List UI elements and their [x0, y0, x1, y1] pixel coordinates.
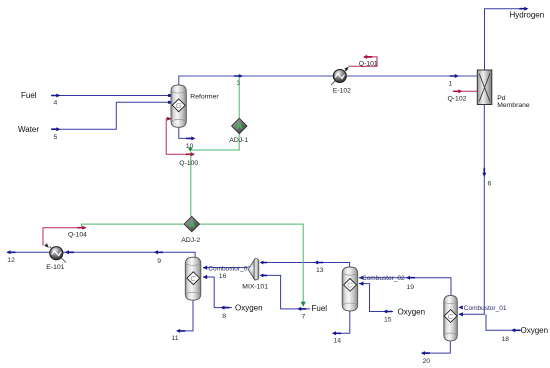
wire green ADJ-1 to stream 10 point: [188, 134, 239, 152]
wire Hydrogen product stream: [485, 7, 529, 70]
wire stream 11 Combustor_03 bottom outlet: [176, 300, 193, 333]
wire stream 5 Water feed: [51, 101, 171, 131]
heat exchanger E-102: [331, 67, 349, 85]
reactor vessel Combustor_03: [185, 257, 201, 300]
svg-text:15: 15: [384, 317, 392, 324]
wire green ADJ-2 to Fuel stream 7: [199, 224, 306, 307]
mixer MIX-101: [248, 259, 259, 281]
svg-text:Oxygen: Oxygen: [398, 307, 426, 316]
wire stream 13 Combustor_02 top to MIX-101: [260, 261, 350, 268]
svg-text:C: C: [448, 312, 454, 321]
svg-text:4: 4: [54, 100, 58, 107]
svg-text:18: 18: [502, 336, 510, 343]
svg-text:13: 13: [316, 267, 324, 274]
svg-text:Oxygen: Oxygen: [521, 326, 549, 335]
svg-text:Q-104: Q-104: [68, 232, 87, 239]
energy stream Q-102 to Pd membrane: [453, 89, 477, 93]
svg-text:6: 6: [488, 181, 492, 188]
svg-text:3: 3: [237, 80, 241, 87]
svg-text:7: 7: [302, 314, 306, 321]
wire green ADJ-2 to stream 10 point: [190, 152, 192, 217]
svg-text:C: C: [347, 281, 353, 290]
svg-text:Water: Water: [18, 125, 39, 134]
svg-text:16: 16: [219, 273, 227, 280]
svg-text:G: G: [176, 101, 182, 110]
reactor vessel Reformer (Gibbs): [171, 85, 186, 127]
svg-text:5: 5: [54, 134, 58, 141]
wire stream 20 Combustor_01 bottom outlet: [421, 341, 451, 355]
svg-text:14: 14: [334, 338, 342, 345]
heat exchanger E-101: [44, 243, 66, 262]
svg-text:E-102: E-102: [333, 88, 351, 95]
energy stream Q-100 to Reformer: [166, 117, 195, 157]
energy stream Q-101 from E-102: [349, 55, 377, 67]
svg-text:Membrane: Membrane: [497, 102, 530, 109]
svg-text:Fuel: Fuel: [312, 304, 328, 313]
svg-text:A: A: [236, 121, 242, 131]
wire stream 19 Combustor_01 top to Combustor_02: [359, 276, 451, 296]
svg-text:Combustor_01: Combustor_01: [464, 305, 507, 312]
svg-text:Combustor_03: Combustor_03: [208, 265, 251, 272]
svg-text:MIX-101: MIX-101: [242, 284, 268, 291]
svg-text:9: 9: [157, 258, 161, 265]
adjust block ADJ-1: [232, 118, 247, 133]
svg-text:Q-102: Q-102: [448, 96, 467, 103]
wire Oxygen 8 feed to Combustor_03: [203, 275, 232, 310]
wire stream 4 Fuel feed: [51, 94, 171, 98]
svg-text:Fuel: Fuel: [21, 91, 37, 100]
svg-text:Q-101: Q-101: [359, 60, 378, 67]
wire Fuel 7 feed to MIX-101: [260, 274, 310, 311]
wire green ADJ-2 to Q-104 arrow: [82, 224, 185, 227]
svg-text:A: A: [189, 219, 195, 229]
svg-text:Q-100: Q-100: [179, 160, 198, 167]
adjust block ADJ-2: [184, 216, 199, 231]
svg-text:ADJ-2: ADJ-2: [181, 237, 200, 244]
wire stream 14 Combustor_02 bottom outlet: [332, 311, 350, 335]
svg-text:ADJ-1: ADJ-1: [229, 137, 248, 144]
energy stream Q-104 to E-101: [43, 226, 87, 246]
wire stream 16 MIX-101 to Combustor_03: [203, 266, 249, 270]
svg-text:Hydrogen: Hydrogen: [510, 11, 545, 20]
svg-text:20: 20: [423, 358, 431, 365]
wire green ADJ-1 to stream 3: [238, 77, 240, 118]
svg-text:E-101: E-101: [46, 264, 64, 271]
wire Oxygen 18 feed to Combustor_01: [486, 314, 521, 332]
reactor vessel Combustor_01: [444, 296, 458, 341]
svg-text:Combustor_02: Combustor_02: [362, 275, 405, 282]
svg-text:1: 1: [449, 81, 453, 88]
membrane unit Pd Membrane: [477, 70, 492, 105]
wire stream 3 reformer top to E-102 to Pd membrane: [179, 74, 478, 85]
svg-text:8: 8: [222, 313, 226, 320]
wire stream 6 Pd membrane retentate to Combustor_01: [458, 105, 486, 317]
svg-text:Pd: Pd: [497, 95, 506, 102]
label Combustor_01: [458, 305, 506, 312]
svg-text:Oxygen: Oxygen: [235, 304, 263, 313]
wire stream 10 reformer bottom outlet: [179, 127, 196, 140]
wire Oxygen 15 feed to Combustor_02: [359, 282, 393, 314]
svg-text:C: C: [190, 274, 196, 283]
svg-text:19: 19: [407, 284, 415, 291]
svg-text:12: 12: [7, 257, 15, 264]
svg-text:Reformer: Reformer: [190, 93, 219, 100]
wire stream 9 and 12 Combustor_03 top through E-101: [6, 250, 195, 257]
svg-text:11: 11: [172, 335, 179, 342]
reactor vessel Combustor_02: [342, 267, 358, 311]
